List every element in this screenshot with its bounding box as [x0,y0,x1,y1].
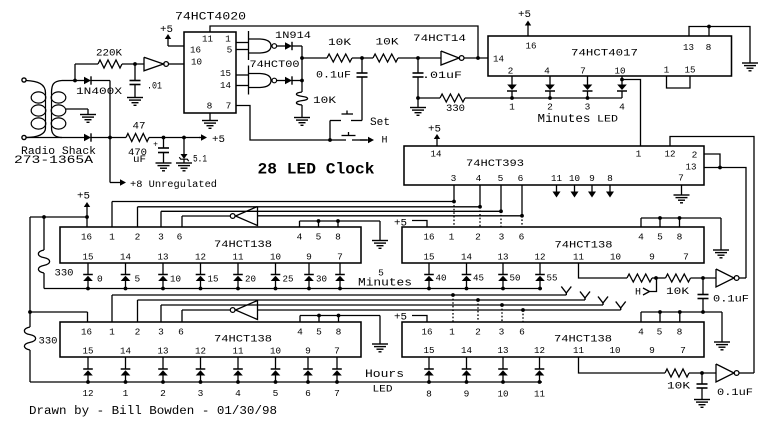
svg-text:10K: 10K [328,38,351,49]
svg-text:1N400X: 1N400X [76,87,122,98]
svg-text:11: 11 [573,345,584,356]
svg-text:330: 330 [39,337,58,348]
svg-text:4: 4 [638,232,644,243]
svg-text:10K: 10K [313,96,336,107]
svg-text:3: 3 [158,327,164,338]
svg-text:7: 7 [334,346,340,357]
svg-text:4: 4 [619,102,625,113]
svg-text:20: 20 [245,274,256,285]
svg-text:6: 6 [518,173,524,184]
svg-text:H: H [635,288,641,299]
svg-text:Minutes: Minutes [538,112,591,126]
svg-text:6: 6 [177,232,183,243]
svg-text:7: 7 [680,345,686,356]
svg-text:6: 6 [519,232,525,243]
svg-text:273-1365A: 273-1365A [14,155,94,167]
svg-text:4: 4 [544,66,550,77]
svg-text:8: 8 [426,389,432,400]
svg-text:5: 5 [316,232,322,243]
svg-text:0.1uF: 0.1uF [713,295,749,306]
svg-text:45: 45 [473,273,484,284]
svg-text:25: 25 [283,274,294,285]
svg-text:4: 4 [235,388,241,399]
svg-text:1: 1 [109,327,115,338]
svg-text:+: + [153,141,158,150]
svg-text:10: 10 [615,66,626,77]
svg-text:14: 14 [120,346,131,357]
svg-text:+5: +5 [77,192,90,203]
svg-text:1: 1 [225,34,231,45]
svg-text:14: 14 [493,54,504,65]
svg-text:7: 7 [678,173,684,184]
svg-text:74HCT14: 74HCT14 [413,34,466,45]
svg-text:10K: 10K [666,287,689,298]
svg-text:74HCT138: 74HCT138 [214,240,272,251]
svg-text:2: 2 [475,327,481,338]
svg-text:8: 8 [336,327,342,338]
svg-text:.01uF: .01uF [422,71,462,82]
svg-text:15: 15 [685,65,696,76]
svg-text:2: 2 [547,102,553,113]
svg-text:13: 13 [686,162,697,173]
svg-text:1: 1 [123,388,129,399]
svg-text:3: 3 [585,102,591,113]
svg-text:6: 6 [178,327,184,338]
svg-text:50: 50 [510,273,521,284]
svg-text:5: 5 [498,173,504,184]
svg-text:74HCT138: 74HCT138 [555,241,613,252]
svg-text:16: 16 [424,232,435,243]
svg-text:.01: .01 [147,82,162,93]
svg-text:+8 Unregulated: +8 Unregulated [130,179,217,191]
svg-text:14: 14 [461,345,472,356]
svg-text:11: 11 [233,346,244,357]
svg-text:11: 11 [551,173,562,184]
svg-text:11: 11 [202,34,213,45]
svg-text:2: 2 [692,150,698,161]
svg-text:47: 47 [133,122,146,133]
svg-text:5: 5 [316,327,322,338]
svg-text:15: 15 [83,252,94,263]
svg-text:8: 8 [607,173,613,184]
svg-text:+5: +5 [428,125,441,136]
svg-text:5: 5 [273,388,279,399]
svg-text:5: 5 [227,45,233,56]
svg-text:+5: +5 [518,10,531,21]
svg-text:13: 13 [498,345,509,356]
svg-text:16: 16 [526,41,537,52]
svg-text:12: 12 [665,149,676,160]
svg-text:3: 3 [499,327,505,338]
svg-text:10: 10 [498,389,509,400]
svg-text:10K: 10K [376,38,399,49]
svg-text:14: 14 [120,252,131,263]
svg-text:10: 10 [610,345,621,356]
svg-text:10K: 10K [667,382,690,393]
svg-text:7: 7 [226,101,232,112]
svg-text:14: 14 [431,149,442,160]
svg-text:15: 15 [424,345,435,356]
svg-text:12: 12 [195,346,206,357]
svg-text:10: 10 [610,252,621,263]
svg-text:0.1uF: 0.1uF [717,388,753,399]
svg-text:7: 7 [334,388,340,399]
svg-text:2: 2 [508,66,514,77]
svg-text:330: 330 [446,104,465,115]
svg-text:Hours: Hours [365,369,404,381]
svg-text:4: 4 [297,232,303,243]
svg-text:13: 13 [158,252,169,263]
svg-text:3: 3 [158,232,164,243]
svg-text:9: 9 [306,252,312,263]
svg-text:LED: LED [597,115,618,126]
svg-text:9: 9 [649,345,655,356]
svg-text:28 LED Clock: 28 LED Clock [258,161,375,179]
svg-text:1: 1 [636,149,642,160]
svg-text:2: 2 [475,232,481,243]
svg-text:13: 13 [158,346,169,357]
svg-text:16: 16 [81,327,92,338]
svg-text:8: 8 [207,101,213,112]
svg-text:7: 7 [337,252,343,263]
svg-text:2: 2 [135,232,141,243]
svg-text:11: 11 [233,252,244,263]
svg-text:2: 2 [135,327,141,338]
svg-text:13: 13 [498,252,509,263]
svg-text:8: 8 [335,232,341,243]
svg-text:12: 12 [534,345,545,356]
svg-text:12: 12 [535,252,546,263]
svg-text:3: 3 [451,173,457,184]
svg-text:5.1: 5.1 [193,155,207,166]
svg-text:330: 330 [55,269,74,280]
svg-text:3: 3 [499,232,505,243]
svg-text:7: 7 [683,252,689,263]
svg-text:LED: LED [373,385,393,396]
svg-text:11: 11 [573,252,584,263]
svg-text:15: 15 [83,346,94,357]
svg-text:H: H [381,136,387,147]
svg-text:9: 9 [649,252,655,263]
svg-text:74HCT138: 74HCT138 [554,335,612,346]
svg-text:8: 8 [677,232,683,243]
svg-text:74HCT138: 74HCT138 [214,335,272,346]
svg-text:15: 15 [424,252,435,263]
svg-text:2: 2 [160,388,166,399]
svg-text:10: 10 [191,57,202,68]
svg-text:1: 1 [509,102,515,113]
svg-text:9: 9 [305,346,311,357]
svg-text:11: 11 [534,389,545,400]
svg-text:74HCT393: 74HCT393 [466,159,524,170]
svg-text:15: 15 [208,274,219,285]
svg-text:55: 55 [547,273,558,284]
svg-text:16: 16 [190,45,201,56]
svg-text:7: 7 [580,66,586,77]
svg-text:Minutes: Minutes [358,278,412,290]
svg-text:6: 6 [305,388,311,399]
svg-text:1: 1 [449,232,455,243]
svg-text:4: 4 [476,173,482,184]
svg-text:74HCT4017: 74HCT4017 [571,49,638,60]
svg-text:3: 3 [198,388,204,399]
svg-text:5: 5 [657,327,663,338]
svg-text:13: 13 [683,42,694,53]
svg-text:12: 12 [83,388,94,399]
svg-text:1: 1 [109,232,115,243]
svg-text:5: 5 [657,232,663,243]
svg-text:9: 9 [589,173,595,184]
svg-text:16: 16 [422,327,433,338]
svg-text:10: 10 [270,346,281,357]
svg-text:0: 0 [97,274,103,285]
svg-text:10: 10 [569,173,580,184]
svg-text:74HCT00: 74HCT00 [250,60,300,71]
svg-text:+5: +5 [160,25,173,36]
svg-text:40: 40 [436,273,447,284]
svg-text:6: 6 [519,327,525,338]
svg-text:uF: uF [133,155,146,166]
svg-text:1: 1 [664,65,670,76]
svg-text:220K: 220K [96,49,122,60]
svg-text:9: 9 [464,389,470,400]
svg-text:14: 14 [220,80,231,91]
svg-text:+5: +5 [394,313,407,324]
svg-text:10: 10 [170,274,181,285]
svg-text:1N914: 1N914 [275,31,311,42]
svg-text:Drawn by - Bill Bowden - 01/30: Drawn by - Bill Bowden - 01/30/98 [29,405,277,418]
svg-text:1: 1 [449,327,455,338]
svg-text:+5: +5 [394,219,407,230]
svg-text:74HCT4020: 74HCT4020 [175,12,246,24]
svg-text:0.1uF: 0.1uF [316,71,351,82]
svg-text:+5: +5 [212,135,225,146]
svg-text:30: 30 [316,274,327,285]
svg-text:5: 5 [135,274,141,285]
svg-text:10: 10 [270,252,281,263]
svg-text:16: 16 [81,232,92,243]
svg-text:12: 12 [195,252,206,263]
svg-text:8: 8 [677,327,683,338]
svg-text:4: 4 [297,327,303,338]
svg-text:Set: Set [370,117,390,129]
svg-text:4: 4 [638,327,644,338]
svg-text:15: 15 [220,68,231,79]
svg-text:8: 8 [706,42,712,53]
svg-text:14: 14 [461,252,472,263]
